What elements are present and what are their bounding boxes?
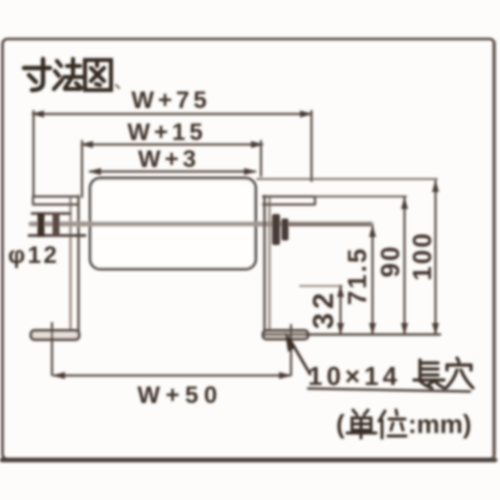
- svg-text:W+3: W+3: [138, 146, 200, 173]
- extension line W+75 left: [32, 111, 34, 196]
- arrow 100 top: [432, 180, 439, 192]
- roller axle center line: [31, 222, 371, 227]
- right frame top flange: [263, 197, 315, 205]
- svg-text:W+50: W+50: [137, 382, 222, 409]
- axle spring detail post 2: [53, 213, 60, 237]
- svg-text:10×14: 10×14: [308, 361, 401, 391]
- dimension line W+75: [33, 113, 311, 115]
- left frame bottom flange: [31, 331, 79, 340]
- extension line W+50 right (slot line): [290, 325, 292, 375]
- extension line for dim 100 (roller top level): [257, 178, 437, 180]
- dimension line 32 vertical: [339, 286, 341, 334]
- unit note glyph 単: [347, 410, 376, 438]
- dimension line W+15: [82, 143, 262, 145]
- arrow W+15 left: [80, 141, 93, 148]
- extension line W+75 right: [310, 111, 312, 181]
- border right thick edge: [492, 42, 495, 458]
- axle spring detail top rail: [32, 212, 70, 215]
- extension line W+15 right: [260, 141, 262, 176]
- right frame bottom flange: [263, 331, 308, 340]
- title glyph 法: [54, 59, 82, 89]
- extension segment to 71.5 (axle level): [290, 223, 370, 225]
- svg-text::mm): :mm): [408, 409, 472, 439]
- title 寸法図 : glyph 寸: [24, 59, 50, 90]
- slot callout glyph 穴: [446, 358, 473, 388]
- stray mark after title: [116, 85, 119, 88]
- right frame web inner line: [263, 196, 265, 334]
- extension line for dim 32: [300, 285, 342, 287]
- svg-text:32: 32: [308, 289, 340, 329]
- arrow 71.5 bottom: [369, 323, 376, 335]
- dimension line 90 vertical: [403, 198, 405, 335]
- svg-text:100: 100: [407, 231, 437, 280]
- svg-text:φ12: φ12: [8, 242, 59, 269]
- arrow 90 top: [401, 197, 408, 209]
- arrow W+3 right: [244, 168, 257, 175]
- left frame web inner line: [77, 196, 79, 338]
- svg-text:71.5: 71.5: [342, 247, 372, 306]
- extension line for dim 90 (frame top level): [315, 196, 406, 198]
- axle spring detail bottom rail: [29, 234, 85, 237]
- dimension line W+3: [90, 170, 255, 172]
- right frame web outer line: [268, 197, 270, 331]
- svg-text:90: 90: [375, 245, 405, 278]
- axle end cap disc 2: [282, 219, 289, 241]
- arrow W+15 right: [251, 141, 264, 148]
- slot callout leader arrow: [289, 338, 310, 374]
- dimension line 100 vertical: [434, 181, 436, 334]
- arrow W+50 right: [279, 372, 292, 379]
- unit note glyph 位: [379, 410, 406, 438]
- axle end cap disc 1: [272, 214, 280, 245]
- arrow W+3 left: [88, 168, 101, 175]
- svg-text:(: (: [336, 409, 345, 439]
- dimension line 71.5 vertical: [371, 226, 373, 334]
- arrow W+75 right: [300, 111, 313, 118]
- slot callout underline: [308, 389, 470, 392]
- arrow 32 top: [337, 285, 344, 297]
- dimension line W+50: [54, 374, 290, 376]
- arrow 90 bottom: [401, 323, 408, 335]
- border bottom thick edge: [2, 458, 495, 463]
- extension line W+15 left: [81, 141, 83, 197]
- arrow W+50 left: [52, 372, 65, 379]
- arrow 32 bottom: [337, 323, 344, 335]
- title glyph 図: [85, 60, 111, 90]
- roller body: [90, 178, 255, 269]
- arrow 100 bottom: [432, 323, 439, 335]
- arrow W+75 left: [31, 111, 44, 118]
- svg-text:W+15: W+15: [127, 119, 206, 146]
- left frame web outer line: [69, 197, 71, 338]
- bottom baseline extension for vertical dims: [263, 333, 440, 335]
- axle spring detail post 1: [38, 213, 45, 237]
- slot callout glyph 長: [414, 360, 444, 388]
- left frame top flange: [33, 197, 78, 205]
- extension line W+50 left: [51, 323, 53, 375]
- svg-text:W+75: W+75: [131, 87, 210, 114]
- arrow 71.5 top: [369, 225, 376, 237]
